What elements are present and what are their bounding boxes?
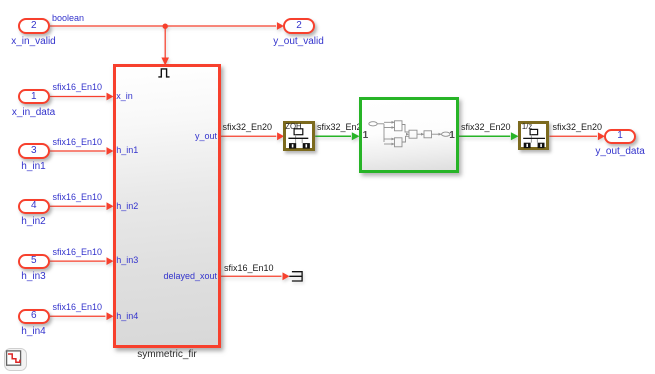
signal label sfix32_En20 after 1/z	[553, 123, 603, 132]
subsystem port 1 out	[449, 131, 455, 140]
wire subsystem to 1/z rate transition (green)	[459, 132, 519, 140]
icon gray connector left	[530, 134, 532, 142]
signal label sfix32_En20 after subsystem	[461, 123, 511, 132]
signal label sfix16_En10 h_in2	[53, 193, 103, 202]
wire h_in2	[50, 202, 114, 210]
label x_in_valid	[0, 37, 74, 47]
wire 1/z to y_out_data	[549, 132, 605, 140]
signal label sfix16_En10 h_in4	[53, 303, 103, 312]
block ZOH rate transition	[283, 121, 315, 151]
inport 5 h_in3	[18, 254, 50, 270]
signal label sfix16_En10 x_in_data	[53, 83, 103, 92]
signal label sfix16_En10 h_in1	[53, 138, 103, 147]
subsystem thumbnail sketch	[362, 100, 456, 170]
signal label sfix16_En10 delayed_xout	[224, 264, 274, 273]
inport 1 x_in_data	[18, 89, 50, 105]
wire ZOH to subsystem (green)	[315, 132, 359, 140]
inport 4 h_in2	[18, 199, 50, 215]
trigger pulse symbol	[116, 67, 214, 341]
block 1/z rate transition	[518, 121, 549, 150]
label h_in1	[0, 162, 74, 172]
icon gray connector right	[536, 138, 538, 142]
port label x_in	[116, 92, 133, 101]
icon right cart	[303, 143, 310, 148]
block subsystem (highlighted green)	[359, 97, 459, 173]
outport 2 y_out_valid	[283, 18, 315, 34]
icon gray connector left	[295, 134, 297, 142]
wire branch down into symmetric_fir trigger	[161, 26, 169, 66]
label h_in3	[0, 272, 74, 282]
wire delayed_xout to terminator	[221, 272, 290, 280]
signal label boolean	[52, 14, 84, 23]
signal label sfix16_En10 h_in3	[53, 248, 103, 257]
svg-text:ZOH: ZOH	[285, 121, 301, 130]
label h_in4	[0, 327, 74, 337]
wire h_in4	[50, 312, 114, 320]
icon baseline	[288, 137, 308, 139]
signal label sfix32_En20 truncated after ZOH	[317, 123, 367, 132]
icon left cart	[289, 143, 296, 148]
port label delayed_xout	[163, 272, 217, 281]
icon sample rect	[294, 128, 303, 134]
port label h_in3	[116, 256, 138, 265]
label x_in_data	[0, 108, 74, 118]
port label y_out	[195, 132, 217, 141]
icon right cart	[537, 142, 544, 147]
signal label sfix32_En20 after y_out	[223, 123, 273, 132]
inport 6 h_in4	[18, 309, 50, 325]
icon baseline	[523, 137, 545, 139]
icon left cart	[523, 142, 530, 147]
toolbar button sample time legend	[4, 348, 27, 371]
subsystem port 1 in	[363, 131, 369, 140]
inport 3 h_in1	[18, 143, 50, 159]
wire h_in3	[50, 257, 114, 265]
icon gray connector right	[301, 138, 303, 143]
port label h_in4	[116, 312, 138, 321]
inport 2 x_in_valid	[18, 18, 50, 34]
terminator symbol	[289, 272, 302, 281]
port label h_in2	[116, 202, 138, 211]
wire y_out to ZOH rate transition	[221, 132, 284, 140]
label y_out_data	[580, 147, 655, 157]
wire h_in1	[50, 147, 114, 155]
wire boolean x_in_valid to y_out_valid	[50, 22, 284, 30]
label y_out_valid	[259, 37, 339, 47]
label h_in2	[0, 217, 74, 227]
port label h_in1	[116, 146, 138, 155]
junction dot on boolean wire	[163, 24, 168, 29]
block name symmetric_fir	[127, 350, 207, 360]
outport 1 y_out_data	[604, 129, 636, 145]
block symmetric_fir	[113, 64, 221, 348]
wire x_in_data to x_in	[50, 93, 114, 101]
icon sample rect	[530, 129, 537, 134]
